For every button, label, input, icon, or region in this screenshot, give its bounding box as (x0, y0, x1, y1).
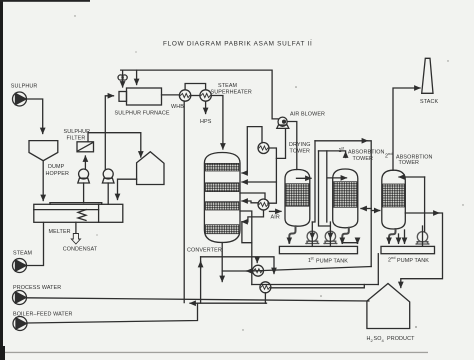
svg-text:nd: nd (388, 151, 392, 156)
svg-text:DRYING: DRYING (289, 142, 311, 148)
svg-text:HPS: HPS (200, 119, 212, 125)
svg-text:AIR: AIR (271, 215, 280, 221)
svg-text:WHB: WHB (171, 104, 184, 110)
svg-text:DUMP: DUMP (48, 164, 65, 170)
svg-text:STEAM: STEAM (13, 251, 33, 257)
svg-text:STACK: STACK (420, 99, 438, 105)
svg-text:TOWER: TOWER (399, 160, 420, 166)
svg-text:FILTER: FILTER (67, 136, 86, 142)
svg-text:ABSORBTION: ABSORBTION (348, 150, 385, 156)
svg-text:BOILER–FEED WATER: BOILER–FEED WATER (13, 312, 73, 318)
svg-text:TOWER: TOWER (290, 149, 311, 155)
svg-text:SULPHUR FURNACE: SULPHUR FURNACE (115, 111, 170, 117)
svg-text:MELTER: MELTER (49, 229, 71, 235)
svg-text:AIR BLOWER: AIR BLOWER (290, 112, 325, 118)
svg-text:TOWER: TOWER (353, 156, 374, 162)
svg-text:SULPHUR: SULPHUR (11, 84, 38, 90)
svg-text:SO: SO (374, 336, 382, 342)
svg-text:SUPERHEATER: SUPERHEATER (211, 90, 252, 96)
svg-text:PRODUCT: PRODUCT (387, 336, 415, 342)
svg-text:CONDENSAT: CONDENSAT (63, 247, 98, 253)
svg-text:PUMP TANK: PUMP TANK (316, 259, 348, 265)
svg-text:HOPPER: HOPPER (46, 171, 70, 177)
svg-text:CONVERTER: CONVERTER (187, 248, 222, 254)
svg-text:PUMP TANK: PUMP TANK (397, 258, 429, 264)
svg-text:SULPHUR: SULPHUR (64, 129, 91, 135)
svg-text:’: ’ (311, 38, 312, 43)
svg-text:PROCESS WATER: PROCESS WATER (13, 285, 61, 291)
svg-text:FLOW DIAGRAM PABRIK ASAM SULFA: FLOW DIAGRAM PABRIK ASAM SULFAT II (163, 41, 312, 48)
svg-text:nd: nd (391, 255, 395, 260)
svg-text:STEAM: STEAM (218, 83, 238, 89)
